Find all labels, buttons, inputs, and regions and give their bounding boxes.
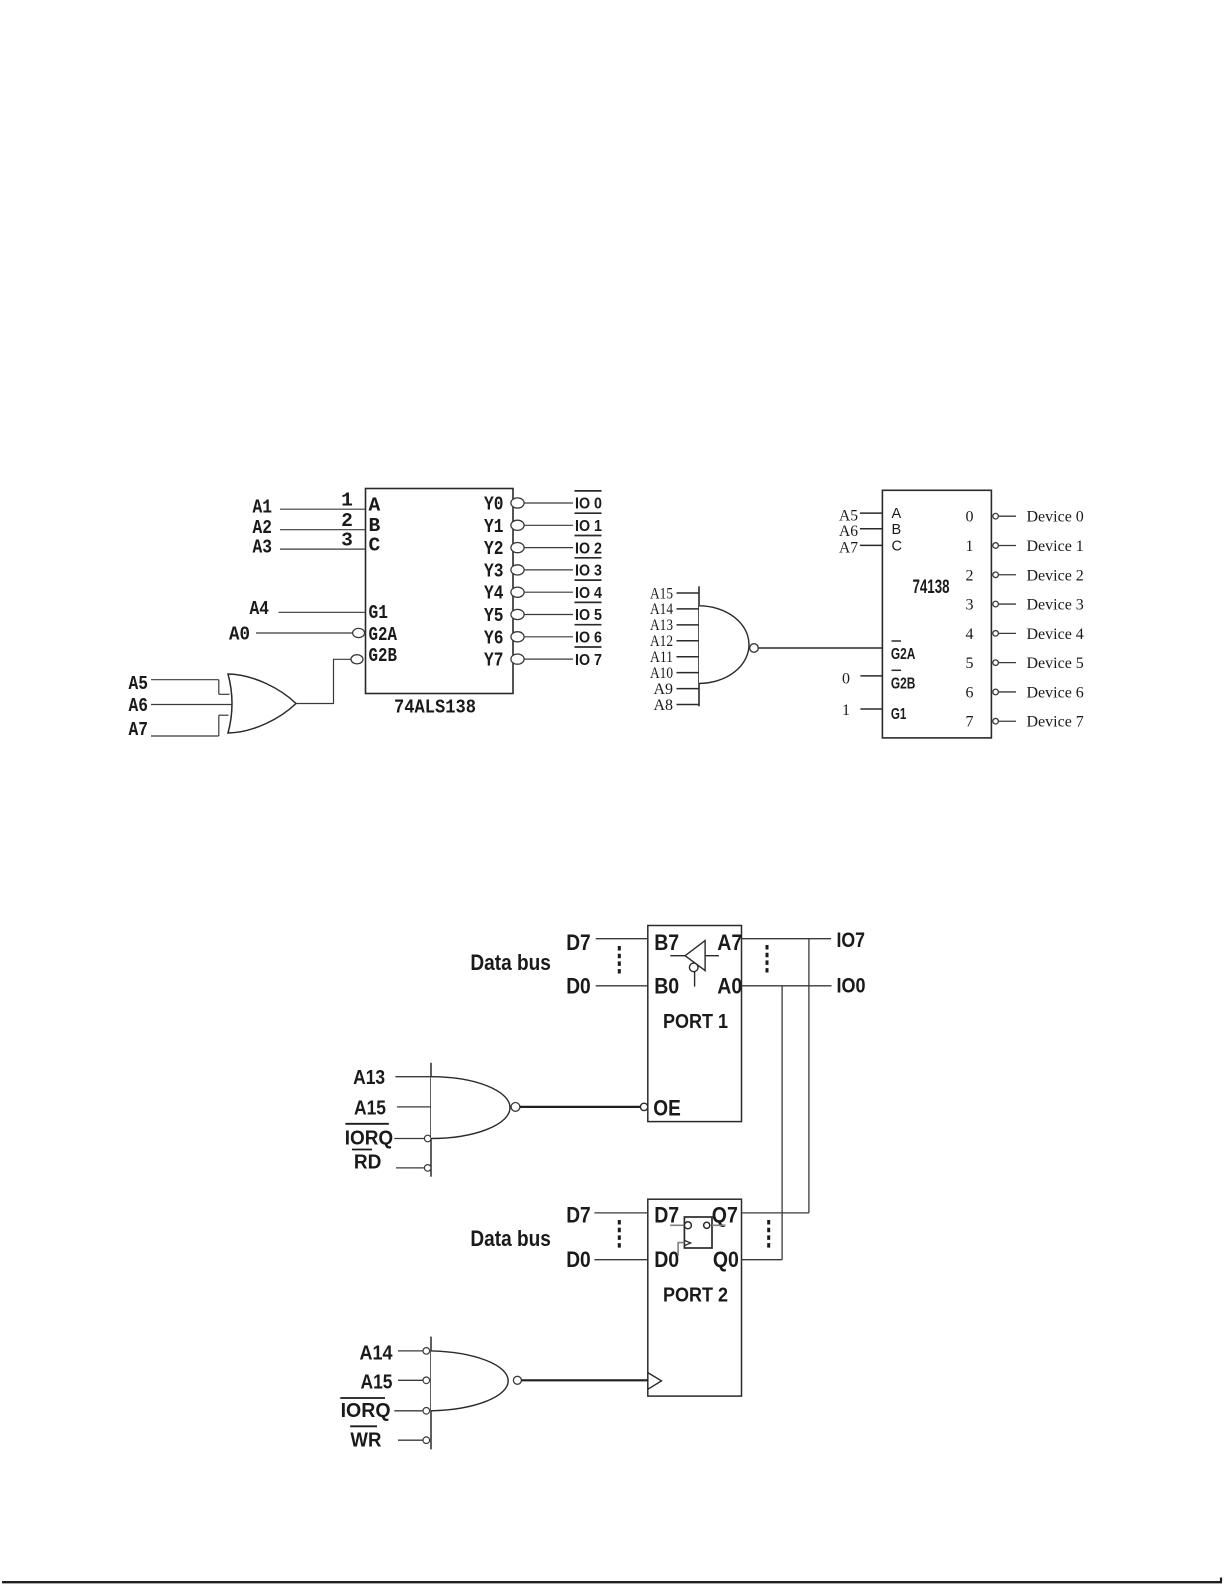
svg-text:A11: A11 xyxy=(650,649,673,666)
svg-text:D0: D0 xyxy=(566,1247,591,1272)
svg-text:Device 2: Device 2 xyxy=(1027,567,1084,584)
svg-text:3: 3 xyxy=(966,597,974,614)
svg-text:G1: G1 xyxy=(891,706,907,723)
svg-text:A6: A6 xyxy=(839,523,858,540)
svg-text:Y7: Y7 xyxy=(484,650,504,672)
svg-text:G1: G1 xyxy=(369,602,389,624)
svg-text:A7: A7 xyxy=(839,540,858,557)
svg-text:A: A xyxy=(369,495,381,517)
svg-text:1: 1 xyxy=(341,490,353,512)
svg-text:A12: A12 xyxy=(650,633,673,650)
svg-text:A13: A13 xyxy=(353,1066,385,1089)
svg-text:IO0: IO0 xyxy=(837,973,866,997)
svg-text:A3: A3 xyxy=(253,537,273,559)
svg-text:A0: A0 xyxy=(717,973,742,998)
svg-text:3: 3 xyxy=(341,530,353,552)
svg-text:A: A xyxy=(892,506,902,522)
svg-text:Y1: Y1 xyxy=(484,516,504,538)
svg-text:C: C xyxy=(892,538,902,554)
svg-text:G2A: G2A xyxy=(369,624,398,646)
svg-text:D7: D7 xyxy=(654,1202,679,1227)
svg-text:Y4: Y4 xyxy=(484,583,504,605)
svg-text:IO 1: IO 1 xyxy=(575,518,602,535)
svg-text:5: 5 xyxy=(966,655,974,672)
svg-text:PORT 1: PORT 1 xyxy=(663,1010,728,1033)
svg-text:Device 1: Device 1 xyxy=(1027,538,1084,555)
svg-text:A0: A0 xyxy=(229,624,250,646)
svg-text:Device 3: Device 3 xyxy=(1027,597,1084,614)
svg-text:G2B: G2B xyxy=(369,645,398,667)
svg-text:IO 6: IO 6 xyxy=(575,630,602,647)
svg-text:PORT 2: PORT 2 xyxy=(663,1284,728,1307)
svg-text:A5: A5 xyxy=(839,507,858,524)
svg-text:A9: A9 xyxy=(653,681,673,698)
svg-text:D0: D0 xyxy=(566,973,591,998)
svg-text:Y3: Y3 xyxy=(484,560,504,582)
svg-text:IO 0: IO 0 xyxy=(575,496,602,513)
svg-text:Data bus: Data bus xyxy=(470,1226,551,1251)
svg-text:Y0: Y0 xyxy=(484,494,504,516)
svg-text:B0: B0 xyxy=(654,973,679,998)
svg-text:1: 1 xyxy=(842,702,850,719)
svg-text:Y5: Y5 xyxy=(484,605,504,627)
svg-text:1: 1 xyxy=(966,538,974,555)
svg-text:4: 4 xyxy=(966,626,974,643)
svg-text:IO 2: IO 2 xyxy=(575,540,602,557)
svg-text:OE: OE xyxy=(653,1095,681,1120)
svg-text:IO 3: IO 3 xyxy=(575,563,602,580)
svg-text:A5: A5 xyxy=(129,673,149,695)
svg-text:7: 7 xyxy=(966,714,974,731)
svg-text:A15: A15 xyxy=(650,585,673,602)
svg-text:IO 7: IO 7 xyxy=(575,652,602,669)
svg-text:IORQ: IORQ xyxy=(345,1127,394,1150)
svg-text:IORQ: IORQ xyxy=(341,1399,391,1422)
svg-text:Device 5: Device 5 xyxy=(1027,655,1084,672)
svg-text:A14: A14 xyxy=(360,1341,394,1364)
svg-text:Y2: Y2 xyxy=(484,538,504,560)
svg-text:WR: WR xyxy=(350,1428,381,1451)
svg-text:C: C xyxy=(369,535,381,557)
svg-text:Device 7: Device 7 xyxy=(1027,714,1084,731)
svg-text:D7: D7 xyxy=(566,930,591,955)
svg-text:Y6: Y6 xyxy=(484,627,504,649)
svg-text:A13: A13 xyxy=(650,617,673,634)
svg-text:A8: A8 xyxy=(653,697,673,714)
svg-text:A15: A15 xyxy=(354,1096,386,1119)
svg-text:RD: RD xyxy=(354,1151,382,1174)
svg-text:6: 6 xyxy=(966,684,974,701)
svg-text:A15: A15 xyxy=(361,1371,393,1394)
svg-text:74ALS138: 74ALS138 xyxy=(394,697,476,719)
svg-text:A14: A14 xyxy=(650,601,673,618)
svg-text:2: 2 xyxy=(966,567,974,584)
svg-text:D7: D7 xyxy=(566,1202,591,1227)
svg-text:A4: A4 xyxy=(250,598,270,620)
svg-text:B: B xyxy=(892,522,902,538)
svg-text:A1: A1 xyxy=(253,497,273,519)
svg-text:74138: 74138 xyxy=(913,577,950,598)
svg-text:G2A: G2A xyxy=(891,646,916,663)
svg-text:Data bus: Data bus xyxy=(470,950,551,975)
svg-text:Q7: Q7 xyxy=(712,1202,738,1227)
svg-text:0: 0 xyxy=(842,670,850,687)
svg-text:Device 4: Device 4 xyxy=(1027,626,1084,643)
svg-text:A7: A7 xyxy=(717,930,742,955)
svg-text:Device 0: Device 0 xyxy=(1027,509,1084,526)
svg-text:IO 4: IO 4 xyxy=(575,585,602,602)
svg-text:G2B: G2B xyxy=(891,676,916,693)
svg-text:A6: A6 xyxy=(129,695,149,717)
svg-text:IO7: IO7 xyxy=(837,928,866,952)
svg-text:IO 5: IO 5 xyxy=(575,607,602,624)
svg-text:0: 0 xyxy=(966,509,974,526)
svg-text:A10: A10 xyxy=(650,665,673,682)
svg-text:B7: B7 xyxy=(654,930,679,955)
svg-text:D0: D0 xyxy=(654,1247,679,1272)
svg-text:Q0: Q0 xyxy=(713,1247,739,1272)
svg-text:Device 6: Device 6 xyxy=(1027,684,1084,701)
svg-text:A7: A7 xyxy=(129,719,149,741)
